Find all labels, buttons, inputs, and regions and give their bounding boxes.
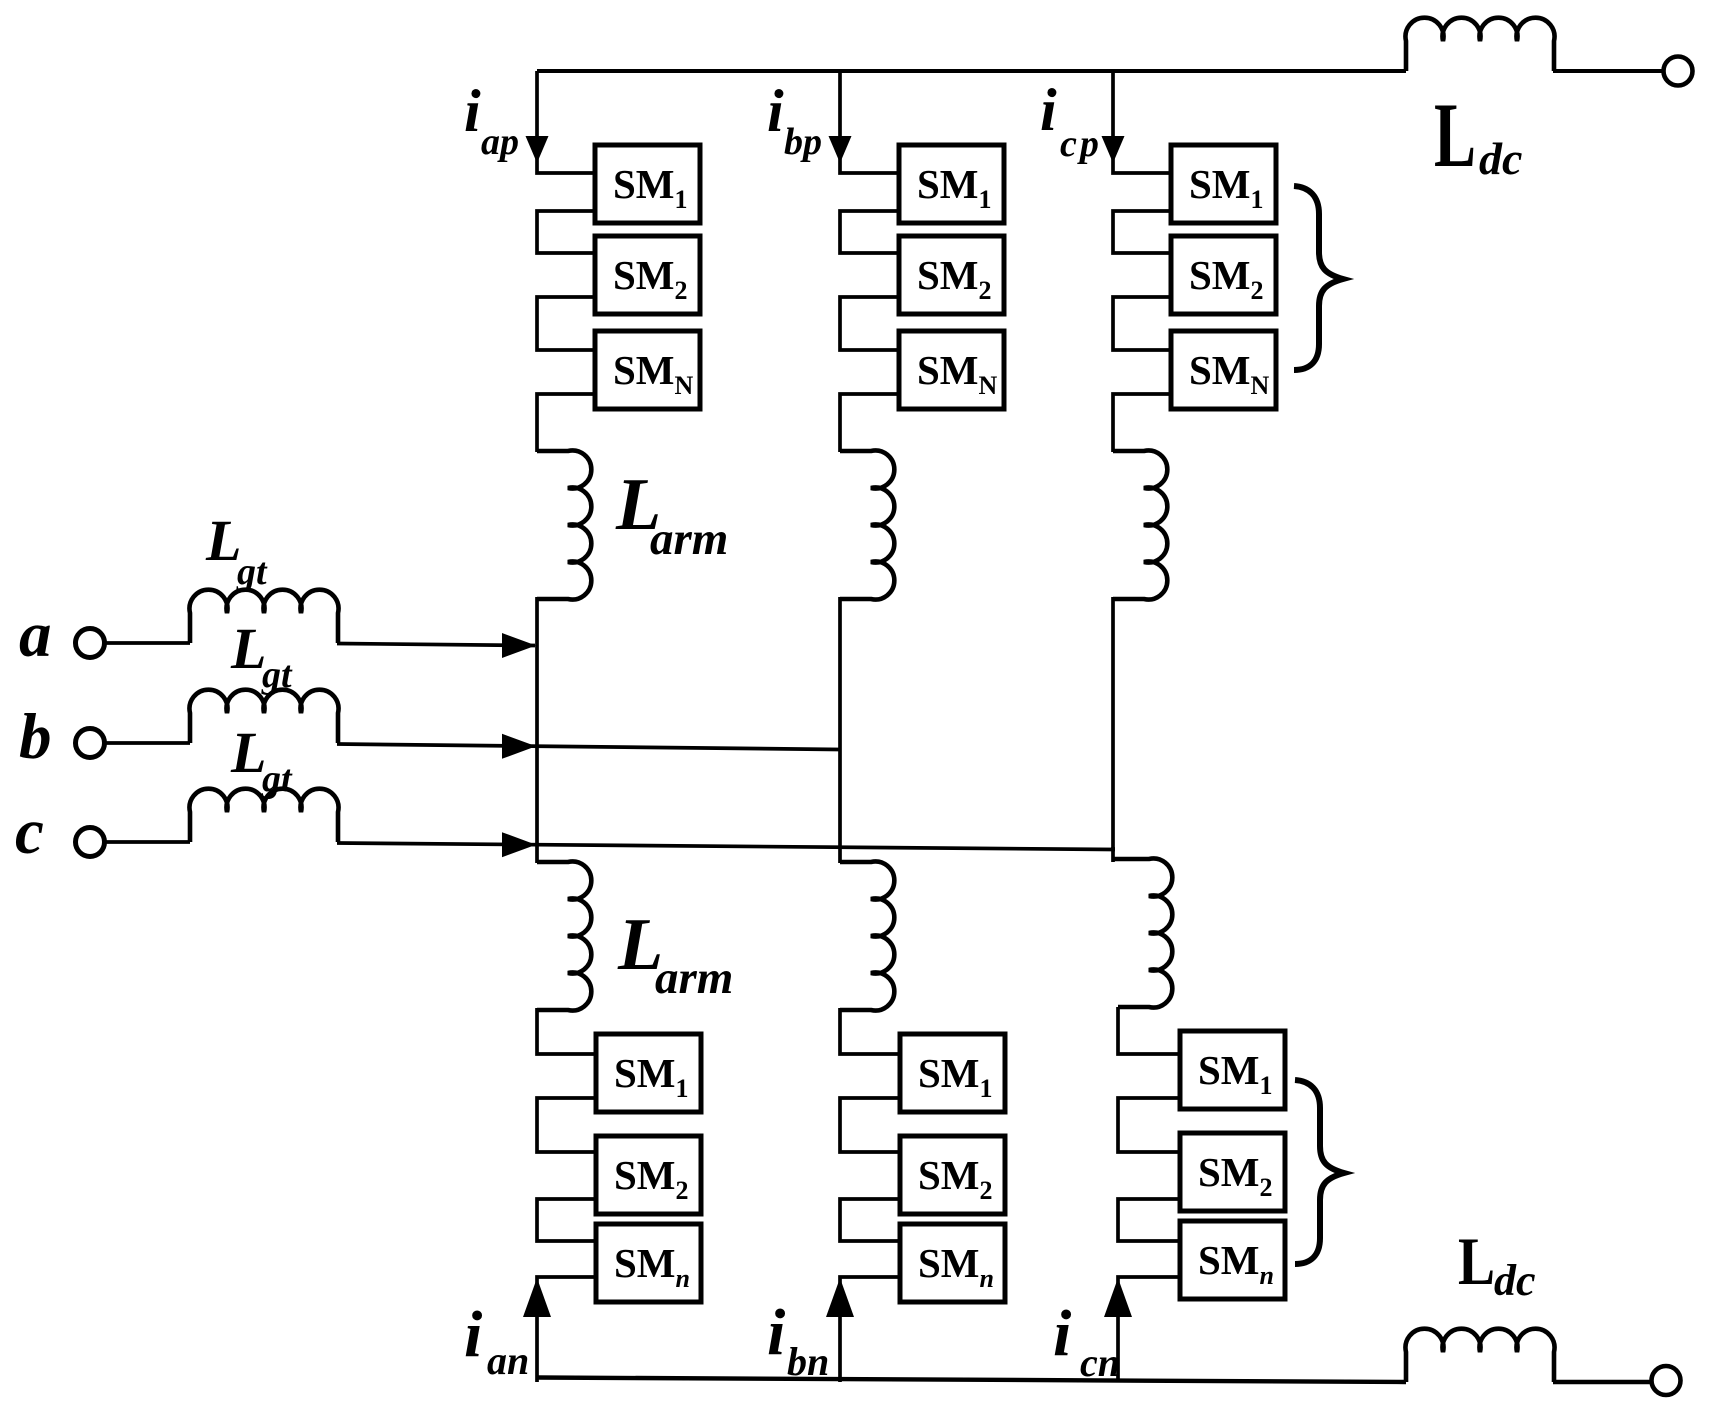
svg-text:gt: gt bbox=[261, 654, 293, 696]
wire: A mid column bbox=[535, 597, 539, 863]
arrow i_ap bbox=[526, 136, 549, 163]
inductor Lgt (phase c) bbox=[190, 789, 339, 842]
wire: A Larm to lower SM1 bbox=[537, 1008, 600, 1054]
arrow into node a bbox=[502, 633, 536, 658]
wire: top DC bus bbox=[537, 69, 1663, 73]
inductor Larm (lower, phase A) bbox=[537, 862, 591, 1011]
arrow on b line bbox=[502, 734, 536, 759]
terminal circle DC+ bbox=[1664, 57, 1693, 86]
wire: b line to phase B leg bbox=[337, 744, 840, 750]
submodule SM2 (lower B) bbox=[900, 1136, 1005, 1214]
inductor Larm (lower, phase C) bbox=[1113, 859, 1172, 1008]
wire: A top drop to SM1 bbox=[537, 71, 599, 173]
submodule SM1 (upper A) bbox=[595, 145, 700, 223]
svg-text:a: a bbox=[19, 599, 52, 671]
svg-text:i: i bbox=[1040, 77, 1057, 143]
arrow i_cp bbox=[1102, 136, 1125, 163]
submodule SMN (upper B) bbox=[899, 331, 1004, 409]
wire: B mid column bbox=[838, 597, 842, 863]
svg-text:arm: arm bbox=[650, 513, 728, 565]
inductor Larm (upper, phase C) bbox=[1113, 451, 1167, 600]
inductor L_dc (bottom) bbox=[1406, 1329, 1555, 1382]
inductor Larm (upper, phase A) bbox=[537, 451, 591, 600]
svg-text:L: L bbox=[230, 616, 266, 681]
inductor Lgt (phase a) bbox=[190, 590, 339, 643]
svg-text:ap: ap bbox=[481, 121, 519, 163]
wire: a line to phase A leg bbox=[337, 644, 535, 646]
wire: B top drop to SM1 bbox=[840, 71, 903, 173]
svg-text:i: i bbox=[464, 78, 481, 144]
svg-text:dc: dc bbox=[1479, 133, 1522, 184]
svg-text:L: L bbox=[1434, 84, 1476, 186]
wire: C mid column bbox=[1111, 597, 1115, 850]
svg-text:bp: bp bbox=[784, 121, 822, 163]
wire: B Larm to lower SM1 bbox=[840, 1008, 904, 1054]
wire: A SM1 to SM2 bbox=[537, 211, 599, 253]
wire: B SM1 to SM2 bbox=[840, 211, 903, 253]
submodule SMn (lower C) bbox=[1180, 1221, 1285, 1299]
submodule SM2 (upper B) bbox=[899, 236, 1004, 314]
wire: bottom DC bus bbox=[537, 1378, 1651, 1383]
arrow i_bp bbox=[829, 136, 852, 163]
brace (lower C stack) bbox=[1295, 1080, 1344, 1264]
wire: C lower SMn to bottom bus bbox=[1118, 1277, 1184, 1382]
submodule SM2 (lower C) bbox=[1180, 1133, 1285, 1211]
wire: A SMN to Larm bbox=[537, 394, 599, 452]
arrow i_an bbox=[523, 1278, 551, 1317]
svg-text:L: L bbox=[1458, 1223, 1495, 1299]
wire: B lower SMn to bottom bus bbox=[840, 1277, 904, 1382]
submodule SM2 (upper C) bbox=[1171, 236, 1276, 314]
wire: C SM1 to SM2 bbox=[1113, 211, 1175, 253]
svg-text:cn: cn bbox=[1080, 1340, 1120, 1385]
wire: B SM2 to SMN bbox=[840, 297, 903, 350]
submodule SMn (lower B) bbox=[900, 1224, 1005, 1302]
wire: A SM2 to SMN bbox=[537, 297, 599, 350]
terminal circle DC- bbox=[1652, 1366, 1681, 1395]
wire: C top drop to SM1 bbox=[1113, 71, 1175, 173]
svg-text:dc: dc bbox=[1494, 1256, 1536, 1305]
submodule SM1 (upper B) bbox=[899, 145, 1004, 223]
wire: B lower SM2 to SMn bbox=[840, 1199, 904, 1241]
wire: C lower SM1 to SM2 bbox=[1118, 1098, 1184, 1152]
wire: c line to phase C leg bbox=[337, 843, 1115, 850]
terminal circle c bbox=[76, 828, 105, 857]
svg-text:i: i bbox=[464, 1298, 483, 1371]
inductor Larm (lower, phase B) bbox=[840, 862, 894, 1011]
submodule SM1 (lower B) bbox=[900, 1034, 1005, 1112]
wire: b terminal to Lgt bbox=[105, 741, 190, 745]
wire: C SMN to Larm bbox=[1113, 394, 1175, 452]
wire: B lower SM1 to SM2 bbox=[840, 1098, 904, 1152]
wire: C Larm to lower SM1 bbox=[1118, 1007, 1184, 1054]
svg-text:gt: gt bbox=[236, 551, 268, 593]
svg-text:i: i bbox=[767, 1296, 786, 1369]
svg-text:bn: bn bbox=[787, 1339, 829, 1384]
submodule SM1 (upper C) bbox=[1171, 145, 1276, 223]
submodule SM2 (upper A) bbox=[595, 236, 700, 314]
svg-text:gt: gt bbox=[261, 758, 293, 800]
wire: A lower SM2 to SMn bbox=[537, 1199, 600, 1241]
wire: B SMN to Larm bbox=[840, 394, 903, 452]
wire: A lower SM1 to SM2 bbox=[537, 1098, 600, 1152]
svg-text:arm: arm bbox=[655, 952, 733, 1004]
submodule SM1 (lower A) bbox=[596, 1034, 701, 1112]
brace (upper C stack) bbox=[1294, 186, 1343, 370]
wire: C SM2 to SMN bbox=[1113, 297, 1175, 350]
terminal circle a bbox=[76, 629, 105, 658]
arrow i_bn bbox=[826, 1278, 854, 1317]
arrow i_cn bbox=[1104, 1278, 1132, 1317]
svg-text:cp: cp bbox=[1060, 123, 1102, 165]
submodule SMN (upper A) bbox=[595, 331, 700, 409]
svg-text:b: b bbox=[19, 701, 52, 773]
wire: C lower SM2 to SMn bbox=[1118, 1199, 1184, 1241]
svg-text:i: i bbox=[767, 78, 784, 144]
svg-text:i: i bbox=[1053, 1297, 1072, 1370]
submodule SMn (lower A) bbox=[596, 1224, 701, 1302]
svg-text:L: L bbox=[205, 508, 241, 573]
inductor Lgt (phase b) bbox=[190, 690, 339, 743]
wire: c terminal to Lgt bbox=[105, 840, 190, 844]
terminal circle b bbox=[76, 729, 105, 758]
submodule SMN (upper C) bbox=[1171, 331, 1276, 409]
svg-text:an: an bbox=[487, 1338, 529, 1383]
inductor L_dc (top) bbox=[1406, 18, 1555, 71]
submodule SM1 (lower C) bbox=[1180, 1031, 1285, 1109]
arrow on c line bbox=[502, 832, 536, 857]
svg-text:L: L bbox=[230, 720, 266, 785]
wire: A lower SMn to bottom bus bbox=[537, 1277, 600, 1382]
wire: C node to lower Larm bbox=[1111, 847, 1115, 862]
wire: a terminal to Lgt bbox=[105, 641, 190, 645]
submodule SM2 (lower A) bbox=[596, 1136, 701, 1214]
svg-text:c: c bbox=[15, 796, 44, 868]
inductor Larm (upper, phase B) bbox=[840, 451, 894, 600]
